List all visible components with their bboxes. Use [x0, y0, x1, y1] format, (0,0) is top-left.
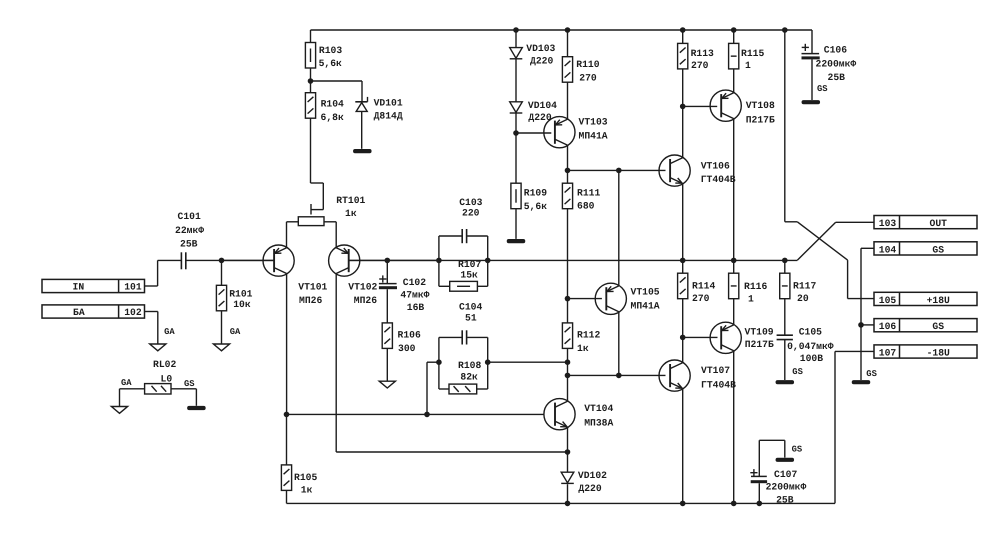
wire R114 down	[682, 299, 684, 338]
ground GS at C107	[776, 458, 795, 462]
label R111	[577, 187, 600, 211]
svg-text:5,6к: 5,6к	[524, 201, 547, 212]
wire C106 to GS	[811, 59, 813, 100]
wire C103 top right	[467, 235, 488, 237]
wire VT102 base to feedback	[349, 259, 439, 261]
wire C104 top left	[439, 336, 462, 338]
node rail/R115	[731, 27, 737, 33]
node C104 net left	[436, 359, 442, 365]
zener VD101	[355, 97, 367, 149]
resistor R105	[281, 414, 291, 503]
svg-text:10к: 10к	[233, 299, 251, 310]
svg-text:OUT: OUT	[930, 218, 948, 229]
wire +18 drop	[785, 30, 798, 222]
ground GA under R101	[213, 344, 229, 351]
label C102	[400, 277, 429, 313]
diode VD103	[510, 48, 523, 59]
wire R110 to VT103 emitter	[567, 82, 569, 119]
svg-text:VT107: VT107	[701, 365, 730, 376]
svg-text:220: 220	[462, 208, 480, 219]
svg-text:R114: R114	[692, 280, 715, 291]
label R107	[458, 259, 481, 280]
svg-text:Д220: Д220	[530, 56, 553, 67]
svg-text:103: 103	[879, 218, 897, 229]
label GA under R101	[230, 327, 241, 337]
wire C107 jog to GS	[759, 440, 785, 476]
node link to VT105 emitter	[616, 168, 622, 174]
resistor R115	[729, 43, 739, 69]
svg-text:R105: R105	[294, 472, 317, 483]
wire C101 to VT101 base	[186, 259, 274, 261]
svg-text:1: 1	[748, 294, 754, 305]
wire C107 to rail	[758, 483, 760, 503]
svg-text:6,8к: 6,8к	[321, 112, 344, 123]
connector 104 GS	[874, 242, 977, 256]
node C107/rail	[757, 501, 763, 507]
svg-text:RT101: RT101	[336, 195, 365, 206]
wire C104 net to R112 node	[488, 361, 568, 363]
svg-text:VT102: VT102	[348, 282, 377, 293]
svg-text:47мкФ: 47мкФ	[400, 290, 429, 301]
ground GS under RL02	[187, 406, 206, 410]
svg-text:R116: R116	[744, 281, 767, 292]
resistor R113	[678, 43, 688, 69]
thermistor RT101 tap	[311, 204, 323, 215]
ground GS under R109	[507, 239, 526, 243]
wire 107 to bottom rail	[835, 351, 874, 503]
wire to VD101	[311, 81, 363, 101]
label C104	[459, 302, 482, 324]
node C102 tap	[385, 258, 391, 264]
node VT105 collector/VT107 base	[616, 373, 622, 379]
thermistor RT101 body	[298, 217, 324, 226]
wire to C102	[386, 260, 388, 283]
resistor R107	[439, 281, 488, 291]
capacitor C107	[750, 469, 767, 483]
svg-text:VT109: VT109	[745, 327, 774, 338]
svg-text:C105: C105	[799, 327, 822, 338]
svg-text:VD103: VD103	[526, 43, 555, 54]
wire rail to R103	[310, 30, 312, 43]
wire 102 to ground GA	[145, 312, 158, 344]
wire VT105 collector down	[618, 312, 620, 376]
label VD103	[526, 43, 555, 66]
resistor R109	[511, 183, 521, 209]
svg-text:МП26: МП26	[299, 295, 322, 306]
wire R111 down	[567, 209, 569, 323]
label VT103	[579, 117, 608, 142]
node R113/VT108 base	[680, 104, 686, 110]
label R103	[319, 45, 343, 69]
label VT106	[701, 160, 736, 185]
wire -18V bottom rail	[287, 502, 836, 504]
svg-text:VD102: VD102	[578, 470, 607, 481]
svg-text:C106: C106	[824, 44, 847, 55]
svg-text:25В: 25В	[828, 72, 846, 83]
wire RT101 right arm	[324, 222, 336, 248]
node rail/R110	[565, 27, 571, 33]
svg-text:102: 102	[124, 307, 142, 318]
svg-text:БА: БА	[73, 307, 85, 318]
svg-text:GS: GS	[932, 244, 944, 255]
label R104	[321, 98, 345, 123]
ground GA under 102	[150, 344, 166, 351]
svg-text:300: 300	[398, 343, 416, 354]
svg-text:2200мкФ: 2200мкФ	[816, 58, 857, 69]
wire down to VT105 emitter	[618, 170, 620, 286]
svg-text:R111: R111	[577, 187, 600, 198]
svg-text:МП38А: МП38А	[584, 417, 613, 428]
transistor VT107	[659, 360, 690, 391]
svg-text:GS: GS	[866, 369, 877, 379]
wire R113 down	[682, 69, 684, 107]
resistor R101	[216, 260, 226, 343]
svg-text:16В: 16В	[407, 302, 425, 313]
wire VT103 collector down	[567, 145, 569, 183]
label R105	[294, 472, 317, 496]
svg-text:RL02: RL02	[153, 359, 176, 370]
transistor VT109	[710, 322, 741, 353]
wire R103-R104	[310, 68, 312, 93]
svg-text:R103: R103	[319, 45, 342, 56]
node feedback right	[485, 258, 491, 264]
svg-text:GS: GS	[184, 379, 195, 389]
label C101	[175, 211, 204, 249]
svg-text:МП26: МП26	[354, 295, 377, 306]
capacitor C102	[379, 275, 397, 289]
wire VT109 collector down	[733, 350, 735, 503]
ground GA under RL02	[111, 407, 127, 414]
label VT107	[701, 365, 736, 390]
wire VT107 base line	[568, 374, 666, 376]
svg-text:C101: C101	[178, 211, 201, 222]
wire C104 net left rail	[438, 337, 440, 389]
svg-text:VT105: VT105	[631, 286, 660, 297]
svg-text:П217Б: П217Б	[746, 115, 775, 126]
svg-text:101: 101	[124, 281, 142, 292]
svg-text:22мкФ: 22мкФ	[175, 225, 204, 236]
label R115	[741, 48, 764, 71]
label GS under C105	[792, 367, 803, 377]
wire VT108 base	[683, 105, 718, 107]
node feedback tap	[565, 359, 571, 365]
svg-text:C102: C102	[403, 277, 426, 288]
diode VD102	[561, 472, 574, 483]
resistor R116	[729, 260, 739, 298]
wire C105 to GS	[784, 340, 786, 380]
wire R116 to VT109 emitter	[733, 299, 735, 326]
node C104 net right	[485, 359, 491, 365]
wire out diagonal	[797, 222, 874, 260]
svg-text:R108: R108	[458, 360, 481, 371]
svg-text:GS: GS	[792, 367, 803, 377]
diode VD104	[510, 102, 523, 113]
label R116	[744, 281, 767, 305]
wire output rail (mid)	[348, 259, 797, 261]
svg-text:Д220: Д220	[578, 483, 601, 494]
svg-text:R109: R109	[524, 187, 547, 198]
svg-text:107: 107	[879, 348, 897, 359]
transistor VT105	[595, 283, 626, 314]
svg-text:R104: R104	[321, 98, 344, 109]
node VT108 collector/output rail	[731, 258, 737, 264]
node VT104 emitter/VT102 collector	[565, 449, 571, 455]
svg-text:R110: R110	[576, 59, 599, 70]
wire to VT103 base	[516, 132, 551, 134]
wire 106 to GS bus	[861, 324, 874, 326]
node VT107 emitter/rail	[680, 501, 686, 507]
label RT101	[336, 195, 365, 219]
capacitor C104	[462, 330, 466, 344]
wire R106 to GA	[386, 348, 388, 381]
connector 106 GS	[874, 319, 977, 333]
wire C102 to R106	[386, 289, 388, 323]
node rail/R113	[680, 27, 686, 33]
ground GS under C105	[776, 380, 795, 384]
wire C104 net right rail	[487, 337, 489, 389]
svg-text:270: 270	[691, 60, 709, 71]
label RL02	[153, 359, 176, 384]
label VD101	[374, 97, 403, 121]
inductor RL02	[145, 384, 171, 394]
svg-text:МП41А: МП41А	[579, 131, 608, 142]
resistor R104	[305, 93, 315, 119]
label R106	[398, 330, 421, 354]
label C105	[787, 327, 834, 364]
svg-text:VD101: VD101	[374, 97, 403, 108]
resistor R111	[562, 183, 572, 209]
svg-text:ГТ404В: ГТ404В	[701, 379, 736, 390]
svg-text:C103: C103	[459, 197, 482, 208]
wire VD103-VD104	[515, 60, 517, 102]
label C106	[816, 44, 857, 83]
wire to VT105 base	[568, 298, 602, 300]
node tap on VT104 base line	[424, 412, 430, 418]
svg-text:2200мкФ: 2200мкФ	[766, 481, 807, 492]
label R117	[793, 280, 816, 304]
svg-text:270: 270	[579, 73, 597, 84]
wire R115 to VT108 emitter	[733, 69, 735, 93]
svg-text:GS: GS	[792, 445, 803, 455]
node output/R117	[782, 258, 788, 264]
wire R104 to RT101	[311, 118, 324, 209]
svg-text:R113: R113	[691, 48, 714, 59]
svg-text:GS: GS	[932, 321, 944, 332]
node feedback left	[436, 258, 442, 264]
wire 104 to GS bus	[861, 248, 874, 380]
wire R117 to C105	[784, 299, 786, 336]
wire VT101 collector down	[286, 274, 288, 415]
wire VD104 down	[515, 113, 517, 183]
resistor R117	[780, 260, 790, 298]
resistor R106	[382, 323, 392, 349]
ground GS under VD101	[353, 149, 372, 153]
label GS at RL02	[184, 379, 195, 389]
connector 103 OUT	[874, 216, 977, 230]
wire VT102 collector down	[336, 274, 567, 453]
svg-text:VT101: VT101	[298, 282, 327, 293]
node VT106 emitter/output rail	[680, 258, 686, 264]
wire RT101 left arm	[287, 222, 299, 248]
svg-text:П217Б: П217Б	[745, 339, 774, 350]
svg-text:106: 106	[879, 321, 897, 332]
svg-text:GA: GA	[121, 378, 132, 388]
node R114/VT109 base/VT107 collector	[680, 335, 686, 341]
svg-text:15к: 15к	[460, 270, 478, 281]
svg-text:1к: 1к	[577, 343, 589, 354]
wire rail to R115	[733, 30, 735, 43]
label GS at bus	[866, 369, 877, 379]
wire rail to VD103	[515, 30, 517, 48]
wire VT107 emitter down	[682, 388, 684, 503]
svg-text:L0: L0	[161, 373, 173, 384]
resistor R112	[562, 323, 572, 349]
wire VT109 base	[683, 336, 718, 338]
label VT108	[746, 100, 775, 125]
wire RL02 left to GA	[120, 389, 145, 407]
connector БА/102	[42, 305, 145, 318]
wire R112 down	[567, 348, 569, 401]
resistor R108	[439, 384, 488, 394]
svg-text:51: 51	[465, 313, 477, 324]
wire VT103 to VT106 base	[568, 169, 666, 171]
ground GS under C106	[802, 100, 821, 104]
connector 107 -18U	[874, 345, 977, 359]
svg-text:GA: GA	[230, 327, 241, 337]
label R113	[691, 48, 714, 71]
node R103/R104/VD101	[308, 78, 314, 84]
node R105 top	[284, 412, 290, 418]
svg-text:1к: 1к	[345, 208, 357, 219]
capacitor C101	[181, 252, 185, 269]
svg-text:5,6к: 5,6к	[319, 58, 342, 69]
node VT103/R111/link	[565, 168, 571, 174]
capacitor C103	[462, 229, 466, 243]
wire 101 to C101	[145, 260, 182, 286]
label C103	[459, 197, 482, 218]
wire RL02 right to GS	[171, 389, 196, 406]
wire VT104 emitter down	[567, 427, 569, 472]
svg-text:VT103: VT103	[579, 117, 608, 128]
wire C103 top left	[439, 235, 462, 237]
svg-text:0,047мкФ: 0,047мкФ	[787, 341, 834, 352]
svg-text:GS: GS	[817, 84, 828, 94]
transistor VT104	[544, 399, 575, 430]
resistor R110	[562, 57, 572, 82]
svg-text:Д814Д: Д814Д	[374, 111, 403, 122]
svg-text:25В: 25В	[180, 239, 198, 250]
label GS above C107	[792, 445, 803, 455]
svg-text:82к: 82к	[460, 372, 478, 383]
wire R109 to GS	[515, 209, 517, 239]
wire rail to C106	[811, 30, 813, 53]
wire VT101 base	[222, 259, 275, 261]
svg-text:IN: IN	[73, 281, 85, 292]
wire +18V top rail	[311, 29, 813, 31]
wire C103 net left rail	[438, 236, 440, 286]
label C107	[766, 469, 807, 506]
label R110	[576, 59, 599, 84]
svg-text:R117: R117	[793, 280, 816, 291]
svg-text:VT104: VT104	[584, 403, 613, 414]
label R109	[524, 187, 547, 212]
node rail/VD103	[513, 27, 519, 33]
resistor R114	[678, 260, 688, 298]
node rail to +18 drop	[782, 27, 788, 33]
svg-text:C107: C107	[774, 469, 797, 480]
svg-text:R101: R101	[229, 288, 252, 299]
svg-text:VT106: VT106	[701, 160, 730, 171]
wire C104 net to lower-left	[427, 362, 439, 414]
label VD104	[528, 100, 557, 123]
svg-text:20: 20	[797, 293, 809, 304]
transistor VT106	[659, 155, 690, 186]
node VT109 collector/rail	[731, 501, 737, 507]
ground GS bus	[852, 380, 871, 384]
node VT105 base tap	[565, 296, 571, 302]
label VT109	[745, 327, 774, 351]
svg-text:680: 680	[577, 200, 595, 211]
svg-text:R115: R115	[741, 48, 764, 59]
svg-text:104: 104	[879, 244, 897, 255]
node GS bus	[858, 322, 864, 328]
wire +18 diagonal	[797, 222, 874, 299]
connector 105 +18U	[874, 292, 977, 306]
wire VT106 collector up	[682, 106, 684, 157]
label VD102	[578, 470, 607, 494]
wire VT107 collector up	[682, 337, 684, 363]
capacitor C106	[802, 44, 820, 60]
transistor VT103	[544, 117, 575, 148]
wire rail to R110	[567, 30, 569, 57]
transistor VT101	[263, 245, 294, 276]
svg-text:R106: R106	[398, 330, 421, 341]
label R114	[692, 280, 715, 304]
svg-text:+18U: +18U	[927, 295, 950, 306]
svg-text:GA: GA	[164, 327, 175, 337]
wire C104 top right	[467, 336, 488, 338]
wire VT101-collector line	[287, 413, 544, 415]
svg-text:R107: R107	[458, 259, 481, 270]
connector IN/101	[42, 279, 145, 292]
wire C103 net right rail	[487, 236, 489, 286]
label GS under C106	[817, 84, 828, 94]
wire VT108 collector down	[733, 118, 735, 260]
ground GA under R106	[379, 381, 395, 388]
wire VD102 to rail	[567, 484, 569, 503]
node VD104/VT103 base	[513, 130, 519, 136]
node input/R101	[219, 258, 225, 264]
svg-text:100В: 100В	[800, 353, 823, 364]
label VT101	[298, 282, 327, 306]
transistor VT108	[710, 90, 741, 121]
label R112	[577, 330, 600, 354]
label GA at RL02	[121, 378, 132, 388]
capacitor C105	[777, 335, 793, 339]
label VT104	[584, 403, 613, 428]
svg-text:VD104: VD104	[528, 100, 557, 111]
svg-text:МП41А: МП41А	[631, 301, 660, 312]
svg-text:ГТ404В: ГТ404В	[701, 174, 736, 185]
svg-text:R112: R112	[577, 330, 600, 341]
svg-text:270: 270	[692, 293, 710, 304]
node VD102/rail	[565, 501, 571, 507]
svg-text:1к: 1к	[301, 484, 313, 495]
label R108	[458, 360, 481, 383]
label VT105	[631, 286, 660, 311]
label R101	[229, 288, 252, 310]
label GA under 102	[164, 327, 175, 337]
